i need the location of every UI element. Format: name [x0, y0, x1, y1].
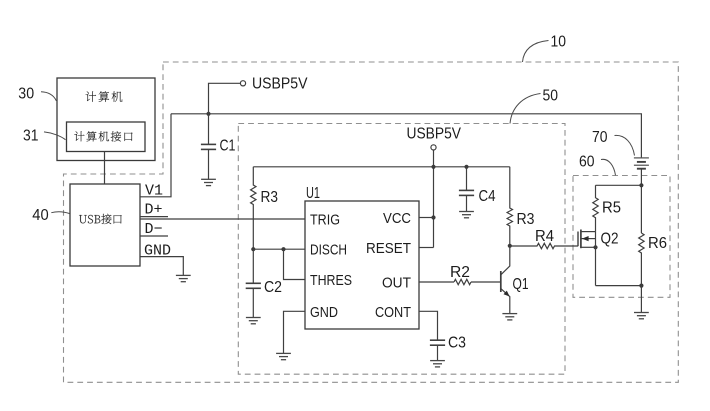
- node: Q2 source junction: [593, 245, 597, 249]
- block 40 USB interface box: [70, 184, 140, 266]
- ground below box 60: [634, 313, 649, 319]
- node: rail junction at USBP5V drop: [431, 165, 435, 169]
- wire: RESET pin stub: [419, 247, 434, 249]
- capacitor C2: [246, 283, 261, 288]
- node: rail tap at C1: [206, 112, 210, 116]
- text computer 计算机: [86, 91, 123, 102]
- svg-text:30: 30: [18, 85, 34, 102]
- capacitor C4: [459, 190, 474, 195]
- svg-text:Q1: Q1: [513, 276, 529, 293]
- ground under C2: [246, 318, 261, 324]
- block 30 computer box: [57, 78, 155, 161]
- wire: C2 to ground: [252, 288, 254, 317]
- wire: GND pin underline and drop: [140, 257, 183, 276]
- leader for label 60: [601, 159, 616, 175]
- wire: C3 to ground: [437, 345, 439, 360]
- svg-text:C1: C1: [220, 138, 236, 155]
- node: DISCH junction left: [251, 247, 255, 251]
- wire: box60 bottom rail: [596, 285, 642, 287]
- wire: OUT pin to R2: [419, 281, 454, 283]
- transistor Q2 NMOS: [578, 230, 596, 249]
- svg-text:TRIG: TRIG: [310, 212, 340, 229]
- wire: D- underline: [140, 235, 168, 237]
- svg-text:VCC: VCC: [383, 210, 411, 227]
- dashed boundary box 50: [238, 124, 565, 375]
- svg-text:THRES: THRES: [310, 272, 352, 289]
- wire: battery to box 60 rail: [640, 170, 642, 234]
- ground under C4: [459, 212, 474, 218]
- svg-text:31: 31: [23, 127, 39, 144]
- text USB interface USB接口: [79, 214, 122, 224]
- leader for label 50: [510, 94, 541, 124]
- wire: USBP5V terminal stub to C1: [209, 83, 241, 144]
- svg-text:R3: R3: [517, 211, 535, 228]
- resistor R2: [454, 279, 471, 284]
- node: battery/R6 top junction: [639, 183, 643, 187]
- svg-text:R4: R4: [535, 228, 554, 245]
- resistor R5 with leads: [593, 185, 598, 231]
- leader for label 30: [41, 92, 56, 101]
- wire: USBP5V drop to VCC/RESET: [433, 150, 435, 247]
- wire: main V1 rail to battery: [171, 114, 641, 158]
- block 31 computer interface box: [67, 122, 146, 152]
- resistor R4 with leads to Q2 gate: [510, 243, 578, 248]
- wire: GND pin of U1: [284, 311, 306, 353]
- wire: D+ to TRIG: [140, 218, 305, 220]
- op-amp U1 timer IC box: [305, 201, 419, 329]
- resistor R3 (left) with leads: [251, 167, 256, 249]
- wire: R2 to Q1 base: [471, 281, 501, 283]
- text computer interface 计算机接口: [74, 131, 132, 141]
- wire: VCC pin stub: [419, 217, 434, 219]
- resistor R6 with leads: [639, 233, 644, 286]
- svg-text:50: 50: [543, 88, 559, 105]
- node: R6 bottom junction: [639, 284, 643, 288]
- ground under C1: [201, 179, 216, 185]
- svg-text:70: 70: [592, 129, 608, 146]
- ground under USB GND: [176, 275, 191, 281]
- svg-text:60: 60: [579, 154, 595, 171]
- wire: node to C2: [252, 249, 254, 283]
- wire: DISCH pin: [253, 248, 305, 250]
- leader for label 31: [44, 132, 66, 140]
- svg-text:R3: R3: [261, 189, 279, 206]
- svg-text:C2: C2: [264, 279, 282, 296]
- dashed boundary box 10: [64, 62, 679, 382]
- svg-text:10: 10: [551, 34, 567, 51]
- dashed boundary box 60: [573, 176, 670, 298]
- node: collector/R4 junction: [508, 244, 512, 248]
- wire: USBP5V rail (inner): [253, 166, 510, 168]
- leader for label 70: [615, 135, 635, 155]
- leader for label 10: [523, 41, 549, 63]
- capacitor C1: [201, 144, 216, 149]
- svg-text:R2: R2: [450, 264, 470, 281]
- wire: CONT pin to C3: [419, 311, 438, 340]
- terminal: USBP5V circle (inner): [431, 145, 436, 150]
- ground under C3: [430, 361, 445, 367]
- svg-text:R6: R6: [648, 235, 667, 252]
- svg-text:CONT: CONT: [375, 304, 411, 321]
- svg-text:GND: GND: [144, 243, 171, 260]
- capacitor C3: [430, 340, 445, 345]
- wire: C4 to ground: [466, 195, 468, 211]
- wire: C1 to ground: [208, 149, 210, 179]
- svg-text:C4: C4: [479, 188, 496, 205]
- node: VCC/RESET junction: [431, 215, 435, 219]
- ground under U1 GND: [276, 353, 291, 359]
- wire: D+ underline: [140, 216, 168, 218]
- svg-text:40: 40: [32, 207, 48, 224]
- wire: C4 stub: [466, 167, 468, 191]
- svg-text:GND: GND: [310, 304, 338, 321]
- svg-text:USBP5V: USBP5V: [252, 75, 308, 92]
- svg-text:RESET: RESET: [366, 240, 411, 257]
- wire: V1 pin underline and riser: [140, 114, 171, 197]
- node: THRES tap: [281, 247, 285, 251]
- svg-text:OUT: OUT: [382, 275, 411, 292]
- wire: interface 31 to USB box: [104, 152, 106, 185]
- svg-text:R5: R5: [602, 200, 621, 217]
- svg-text:V1: V1: [145, 183, 163, 200]
- svg-text:Q2: Q2: [601, 231, 619, 248]
- node: rail tap at C4: [464, 165, 468, 169]
- ground under Q1 emitter: [502, 314, 517, 320]
- transistor Q1 NPN: [501, 246, 510, 314]
- resistor R3 (right) with leads: [507, 167, 512, 246]
- wire: Q2 drain column / bottom rail left: [595, 232, 597, 286]
- terminal: USBP5V circle (left): [240, 81, 245, 86]
- svg-text:U1: U1: [306, 185, 320, 202]
- wire: rail to ground below box 60: [640, 286, 642, 313]
- svg-text:DISCH: DISCH: [310, 242, 347, 259]
- svg-text:D+: D+: [145, 202, 163, 219]
- svg-text:C3: C3: [448, 335, 466, 352]
- wire: THRES pin branch: [284, 249, 306, 279]
- svg-text:D−: D−: [145, 221, 163, 238]
- battery 70 symbol: [634, 158, 649, 169]
- leader for label 40: [51, 212, 70, 214]
- wire: box60 top rail: [596, 184, 642, 186]
- svg-text:USBP5V: USBP5V: [407, 126, 462, 143]
